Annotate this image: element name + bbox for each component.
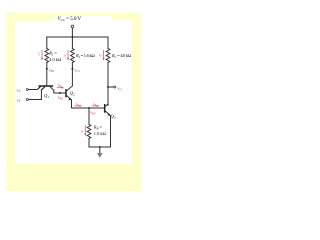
wire top rail — [47, 36, 108, 38]
wire ground stub — [99, 147, 101, 153]
resistor RB zigzag — [87, 125, 91, 139]
wire top input — [29, 89, 37, 91]
output terminal vO — [114, 86, 116, 88]
yellow top band right patch — [112, 16, 132, 20]
svg-text:iB: iB — [93, 101, 96, 107]
wire Q1 collector to Q2 base — [54, 90, 66, 93]
wire R1 top stub — [46, 37, 48, 49]
current arrow iE — [74, 105, 79, 107]
wire output stub — [108, 86, 114, 88]
node vB1 — [46, 68, 48, 70]
svg-text:1.0 kΩ: 1.0 kΩ — [94, 131, 107, 136]
resistor R2 zigzag — [71, 49, 75, 63]
wire bottom input — [29, 90, 42, 100]
wire Q2 emitter down to node — [72, 100, 105, 108]
wire VCC stub — [71, 28, 73, 37]
junction output node — [107, 86, 109, 88]
junction ground-rail — [99, 146, 101, 148]
junction RB node — [88, 107, 90, 109]
current arrow iB — [92, 105, 97, 107]
resistor R1 zigzag — [45, 49, 49, 63]
current arrow iC — [103, 50, 105, 59]
resistor RC zigzag — [106, 49, 110, 63]
svg-text:iC: iC — [99, 52, 102, 58]
node vC2 — [71, 68, 73, 70]
wire RB top stub — [88, 108, 90, 124]
input terminal vX — [26, 89, 28, 91]
wire RC bottom to Q3 collector — [107, 63, 109, 106]
wire RB bottom stub — [88, 139, 90, 148]
wire RC top stub — [107, 37, 109, 49]
junction VCC-rail — [71, 36, 73, 38]
wire Q3 emitter down — [110, 118, 112, 147]
current arrow i2 — [67, 50, 69, 59]
current arrow i1 — [41, 50, 105, 136]
figure white background — [16, 16, 133, 164]
current arrow i3 — [84, 125, 86, 134]
current arrow iB2 — [57, 87, 62, 89]
ground — [97, 153, 103, 158]
yellow top band left patch — [16, 16, 56, 21]
svg-text:iE: iE — [76, 101, 79, 107]
input terminal vY — [26, 99, 28, 101]
svg-text:iB2: iB2 — [58, 82, 63, 88]
transistor Q3 — [105, 104, 111, 118]
svg-text:4.0 kΩ: 4.0 kΩ — [49, 57, 62, 62]
node vB2 — [59, 92, 61, 94]
transistor Q1 — [37, 86, 54, 90]
wire R1 bottom to Q1 base — [46, 63, 48, 86]
transistor Q2 — [66, 86, 72, 100]
supply terminal VCC — [71, 25, 74, 28]
wire R2 bottom to Q2 collector — [71, 63, 73, 87]
wire R2 top stub — [71, 37, 73, 49]
yellow panel — [6, 13, 141, 192]
wire bottom rail — [89, 146, 111, 148]
